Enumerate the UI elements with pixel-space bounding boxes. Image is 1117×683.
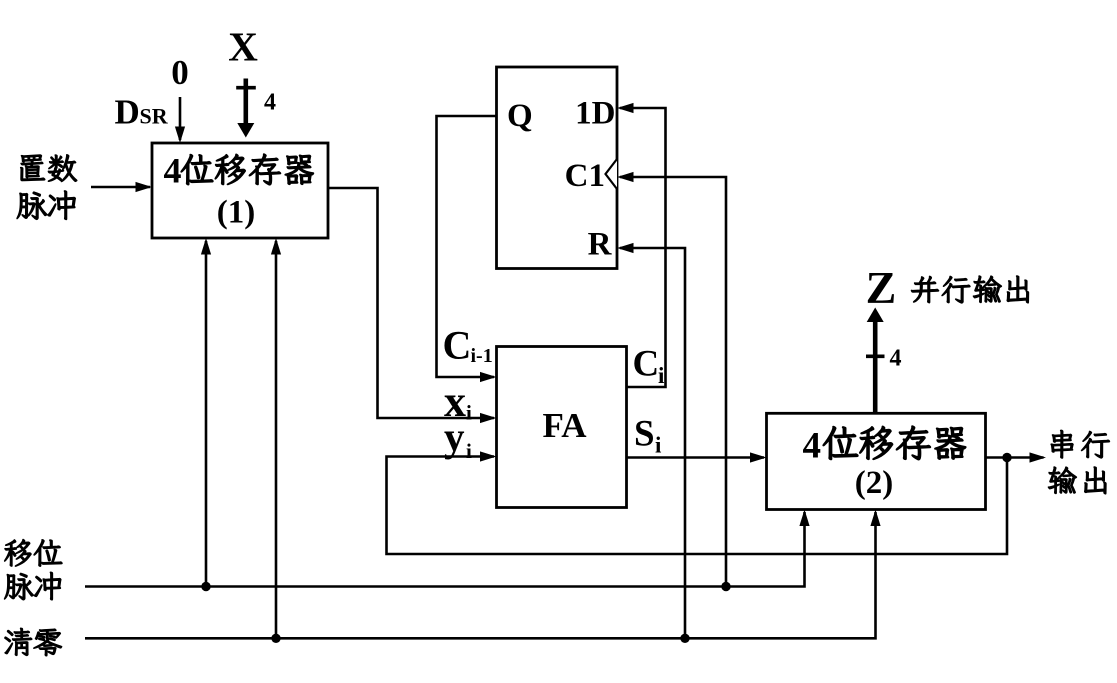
svg-text:i: i: [655, 432, 662, 457]
junction: shift rail to C1 branch: [721, 582, 730, 591]
label serial output (Chinese): [1048, 430, 1110, 494]
svg-text:Q: Q: [507, 98, 533, 134]
label 4 on Z bus: [890, 346, 902, 372]
wire: clear rail: [85, 510, 881, 639]
wire: constant 0 serial input to REG1: [175, 97, 185, 143]
svg-text:4: 4: [264, 90, 276, 116]
wire: shift clock to FF C1 input: [617, 172, 726, 587]
wire: REG1 serial out to FA x_i: [328, 188, 497, 423]
wire: serial output feedback to FA y_i input: [387, 451, 1008, 554]
label 4 on X bus: [264, 90, 276, 116]
label y_i: [444, 414, 472, 464]
label parallel output (Chinese): [911, 276, 1029, 304]
svg-text:4: 4: [164, 151, 182, 191]
wire: set pulse input to REG1: [91, 182, 152, 192]
wire: clear to FF R input: [617, 243, 685, 638]
wire: REG2 serial output: [985, 452, 1046, 462]
label shift-pulse (Chinese): [4, 539, 62, 600]
label C_i-1: [443, 323, 493, 368]
svg-text:1D: 1D: [575, 96, 615, 132]
svg-text:(2): (2): [855, 465, 893, 501]
svg-text:y: y: [444, 414, 465, 460]
wire: clear up to REG1: [271, 238, 281, 638]
D flip-flop U1: [497, 67, 618, 269]
svg-text:(1): (1): [217, 195, 255, 231]
register REG1 (4-bit shift register 1): [152, 143, 328, 238]
label C_i: [633, 344, 666, 389]
label x_i: [444, 377, 472, 426]
wire: shift pulse up to REG1: [201, 238, 211, 587]
register REG2 (4-bit shift register 2): [767, 413, 986, 509]
wire: FA C_i output to FF 1D input: [617, 103, 666, 387]
label DSR: [115, 93, 169, 132]
junction: clear rail to R branch: [680, 634, 689, 643]
svg-text:SR: SR: [140, 104, 169, 129]
label X: [228, 24, 258, 70]
svg-text:i: i: [466, 401, 472, 425]
wire: shift pulse rail: [85, 510, 810, 587]
svg-text:i: i: [466, 439, 472, 463]
label S_i: [634, 414, 662, 458]
svg-text:C: C: [633, 344, 660, 385]
junction: clear rail to REG1 branch: [271, 634, 280, 643]
full adder FA: [497, 347, 627, 508]
label Z: [866, 262, 897, 313]
svg-text:i-1: i-1: [471, 345, 493, 367]
svg-text:C1: C1: [565, 158, 605, 194]
junction: shift rail to REG1 branch: [201, 582, 210, 591]
svg-text:i: i: [658, 363, 665, 388]
label clear (Chinese): [5, 628, 62, 656]
svg-text:FA: FA: [542, 406, 587, 445]
svg-text:4: 4: [890, 346, 902, 372]
label 0: [171, 53, 189, 92]
svg-text:4: 4: [803, 426, 822, 467]
bus: X parallel input, 4 bits: [236, 79, 256, 138]
svg-text:X: X: [228, 24, 258, 70]
svg-text:R: R: [588, 227, 613, 263]
bus: Z parallel output, 4 bits: [866, 308, 885, 414]
svg-text:D: D: [115, 93, 140, 132]
wire: FF Q output to FA C_i-1 input: [437, 116, 497, 382]
svg-text:S: S: [634, 414, 655, 455]
wire: FA S_i output to REG2 serial input: [627, 452, 767, 462]
svg-text:Z: Z: [866, 262, 897, 313]
junction: serial output node: [1002, 453, 1011, 462]
svg-text:C: C: [443, 323, 472, 368]
svg-text:0: 0: [171, 53, 189, 92]
C1 dynamic clock edge indicator: [606, 159, 618, 189]
label set-pulse (Chinese): [17, 154, 77, 219]
